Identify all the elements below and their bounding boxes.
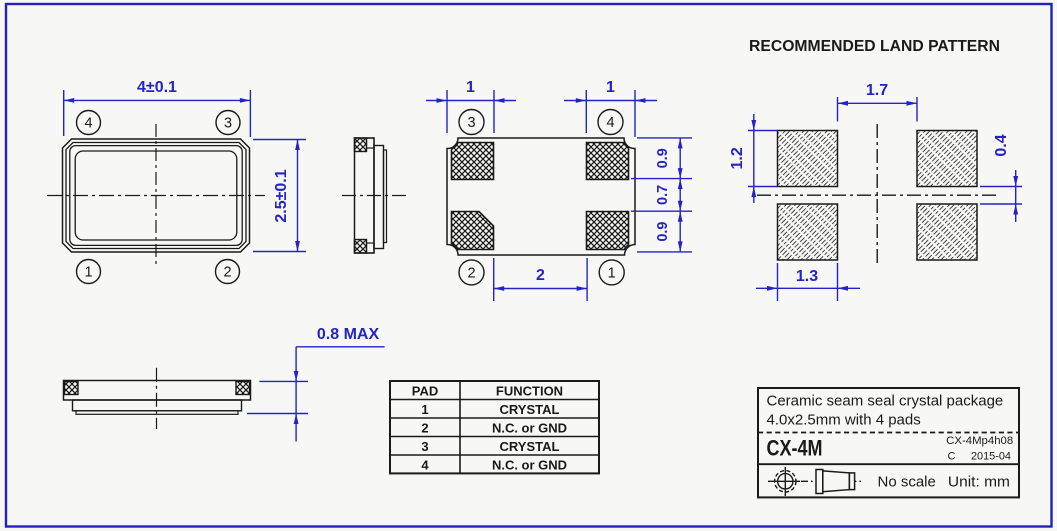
svg-text:CRYSTAL: CRYSTAL xyxy=(500,439,560,454)
dimension 2.5±0.1 xyxy=(253,140,306,252)
dimension 1 (right pad width) xyxy=(564,79,657,137)
pad 2 (bottom view, hatched, chamfered corner) xyxy=(452,212,494,250)
svg-text:C: C xyxy=(948,451,956,463)
side view body xyxy=(355,138,375,253)
svg-text:2: 2 xyxy=(223,265,231,281)
dimension 0.8 MAX xyxy=(247,326,385,442)
svg-text:0.4: 0.4 xyxy=(993,134,1010,156)
title block description text xyxy=(767,393,1014,491)
pad 1 (bottom view, hatched) xyxy=(587,212,629,250)
side view seal hatch top xyxy=(355,138,367,152)
title block frame xyxy=(758,388,1019,497)
dimension stack 0.9 / 0.7 / 0.9 xyxy=(631,138,692,252)
svg-text:N.C. or GND: N.C. or GND xyxy=(492,421,567,436)
pin circle 4 (bottom view) xyxy=(598,110,623,135)
svg-text:Ceramic seam seal crystal pack: Ceramic seam seal crystal package xyxy=(767,393,1004,410)
svg-text:3: 3 xyxy=(467,115,475,131)
svg-text:Unit: mm: Unit: mm xyxy=(948,474,1010,491)
svg-text:1.3: 1.3 xyxy=(796,268,818,285)
dimension 1 (left pad width) xyxy=(426,79,516,133)
dimension 2 (pad span) xyxy=(494,258,587,301)
front view centerline xyxy=(156,368,158,429)
dimension 4±0.1 xyxy=(64,79,251,137)
svg-text:0.8 MAX: 0.8 MAX xyxy=(317,326,380,343)
side view lid xyxy=(374,146,387,249)
svg-text:1: 1 xyxy=(466,79,475,96)
svg-text:CX-4M: CX-4M xyxy=(767,436,823,461)
svg-text:4: 4 xyxy=(606,115,614,131)
pin circle 2 xyxy=(216,260,240,284)
projection symbol cone xyxy=(816,470,855,494)
svg-text:2: 2 xyxy=(536,267,545,284)
svg-text:PAD: PAD xyxy=(412,384,438,399)
pin circle 1 (bottom view) xyxy=(599,260,624,285)
svg-text:1: 1 xyxy=(84,265,92,281)
top view package outlines xyxy=(63,139,250,252)
svg-text:No scale: No scale xyxy=(878,474,936,491)
pad 3 (bottom view, hatched) xyxy=(452,143,494,180)
pin circle 1 xyxy=(77,260,101,284)
svg-text:CRYSTAL: CRYSTAL xyxy=(500,402,560,417)
side view centerline xyxy=(342,195,406,197)
svg-text:N.C. or GND: N.C. or GND xyxy=(492,458,567,473)
svg-text:1.2: 1.2 xyxy=(729,147,746,169)
svg-text:FUNCTION: FUNCTION xyxy=(496,384,563,399)
land pad top-right xyxy=(917,131,977,187)
svg-text:2015-04: 2015-04 xyxy=(971,451,1011,463)
svg-text:0.9: 0.9 xyxy=(655,222,671,242)
land pad bottom-right xyxy=(917,204,977,260)
dimension 1.2 xyxy=(729,114,778,203)
svg-text:4±0.1: 4±0.1 xyxy=(137,79,177,96)
front view body xyxy=(64,381,251,415)
front view seal hatch left xyxy=(65,382,79,395)
svg-text:3: 3 xyxy=(224,116,232,132)
svg-text:1: 1 xyxy=(421,402,428,417)
svg-text:3: 3 xyxy=(421,439,428,454)
land pattern centerlines xyxy=(757,124,1000,263)
land pad top-left xyxy=(778,131,838,187)
pad function table xyxy=(390,381,599,473)
side view seal hatch bottom xyxy=(355,240,367,254)
dimension 1.7 xyxy=(838,82,918,122)
svg-text:1: 1 xyxy=(606,79,615,96)
svg-text:0.9: 0.9 xyxy=(655,148,671,168)
pin circle 2 (bottom view) xyxy=(459,260,484,285)
dimension 0.4 xyxy=(980,134,1022,222)
svg-text:CX-4Mp4h08: CX-4Mp4h08 xyxy=(946,435,1013,447)
bottom view outline with corner castellations xyxy=(447,138,635,255)
svg-text:2: 2 xyxy=(467,265,475,281)
svg-text:4.0x2.5mm with 4 pads: 4.0x2.5mm with 4 pads xyxy=(767,412,921,429)
top view centerlines xyxy=(47,124,265,267)
pad 4 (bottom view, hatched) xyxy=(587,143,629,180)
svg-text:2.5±0.1: 2.5±0.1 xyxy=(273,169,290,222)
svg-text:2: 2 xyxy=(421,421,428,436)
svg-text:1.7: 1.7 xyxy=(866,82,888,99)
svg-text:0.7: 0.7 xyxy=(655,185,671,205)
projection symbol circle xyxy=(768,467,800,496)
pin circle 3 xyxy=(216,111,240,135)
land pad bottom-left xyxy=(778,204,838,260)
dimension 1.3 xyxy=(756,263,860,301)
pin circle 4 xyxy=(77,111,101,135)
svg-text:RECOMMENDED LAND PATTERN: RECOMMENDED LAND PATTERN xyxy=(749,38,1000,55)
svg-text:4: 4 xyxy=(421,458,429,473)
title block solid separator xyxy=(758,463,1019,465)
front view seal hatch right xyxy=(236,382,250,395)
projection symbol centerline xyxy=(801,480,861,482)
pin circle 3 (bottom view) xyxy=(459,110,484,135)
svg-text:4: 4 xyxy=(84,116,92,132)
svg-text:1: 1 xyxy=(608,265,616,281)
title block dashed separator xyxy=(758,432,1019,434)
